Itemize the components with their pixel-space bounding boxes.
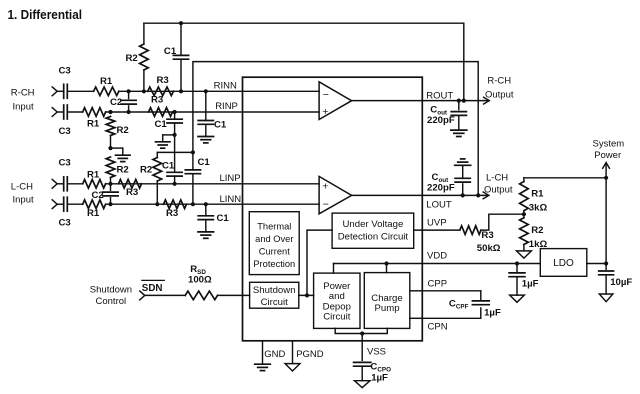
ground GND (262, 341, 264, 364)
capacitor C1 (R-CH feedback) (180, 23, 182, 55)
node RINN-C1fb (179, 89, 183, 93)
wire shutdown (145, 294, 185, 296)
capacitor C1 (L-CH feedback) (192, 152, 194, 170)
wire (67, 183, 82, 185)
resistor R1 (RINN) (94, 87, 119, 96)
node ROUT-Cout (457, 99, 461, 103)
wire VDD internal (334, 263, 423, 265)
svg-text:−: − (323, 89, 329, 101)
svg-text:220pF: 220pF (427, 183, 455, 194)
svg-text:C3: C3 (59, 218, 71, 229)
svg-text:Input: Input (13, 195, 34, 206)
svg-text:R1: R1 (87, 119, 100, 130)
resistor R3 (RINN) (148, 87, 174, 96)
svg-text:Under Voltage: Under Voltage (342, 219, 403, 230)
wire (57, 203, 63, 205)
resistor R1 (LINN) (83, 200, 106, 209)
capacitor Cout (R-CH) 220pF (458, 101, 460, 110)
svg-text:R2: R2 (531, 225, 543, 236)
input connector shutdown (140, 291, 145, 300)
block LDO (540, 249, 587, 277)
svg-text:L-CH: L-CH (486, 173, 508, 184)
wire (106, 203, 320, 205)
node RINN-R2fb (142, 89, 146, 93)
wire (106, 111, 320, 113)
capacitor C1 (LINN to ground) (205, 204, 207, 216)
feedback mid wire (157, 151, 193, 153)
svg-text:Detection Circuit: Detection Circuit (338, 231, 409, 242)
capacitor C3 (LINP) (63, 177, 65, 191)
capacitor C1 (RINP to bias node) (174, 112, 176, 119)
system power arrow (603, 163, 610, 169)
svg-text:LINP: LINP (220, 173, 241, 184)
svg-text:10µF: 10µF (610, 277, 632, 288)
input connector R-CH RINP (52, 108, 57, 117)
IC boundary box (243, 77, 423, 341)
svg-text:Shutdown: Shutdown (253, 285, 296, 296)
svg-text:C1: C1 (162, 161, 175, 172)
svg-text:Input: Input (13, 101, 34, 112)
svg-text:SDN: SDN (142, 283, 163, 294)
node power-10uF (604, 261, 608, 265)
resistor R3 (RINP) (149, 108, 173, 117)
svg-text:and Over: and Over (255, 234, 293, 244)
node RINP-R2chain (108, 110, 112, 114)
wire VSS (361, 334, 363, 361)
node LINP-R2chain (108, 182, 112, 186)
node RINN-C1gnd (204, 89, 208, 93)
svg-text:GND: GND (264, 349, 285, 360)
wire CPN (410, 317, 423, 319)
svg-text:LOUT: LOUT (426, 199, 452, 210)
svg-text:Thermal: Thermal (257, 222, 291, 232)
block Thermal and Over Current Protection (249, 212, 299, 275)
svg-text:R2: R2 (126, 53, 138, 64)
bias node C1 chain (173, 133, 177, 137)
op-amp A2 (L-CH) (319, 176, 352, 213)
svg-text:R1: R1 (87, 170, 100, 181)
wire stub to power depop (333, 264, 335, 274)
svg-text:Power: Power (594, 150, 621, 161)
input connector L-CH LINN (52, 200, 57, 209)
svg-text:R3: R3 (481, 230, 493, 241)
capacitor C3 (RINN) (63, 84, 65, 98)
wire (67, 111, 82, 113)
svg-text:1. Differential: 1. Differential (8, 7, 83, 22)
node RINN-C2 (127, 89, 131, 93)
resistor R3 (LINN) (164, 200, 187, 209)
capacitor Cout (L-CH) 220pF (462, 184, 464, 196)
svg-text:−: − (323, 199, 329, 211)
wire LOUT (422, 194, 483, 196)
svg-text:50kΩ: 50kΩ (477, 243, 501, 254)
wire (57, 111, 63, 113)
svg-text:Current: Current (259, 247, 290, 257)
feedback wire 2 (LOUT to LINN) (193, 62, 478, 196)
svg-text:CCPF: CCPF (449, 299, 469, 311)
svg-text:R3: R3 (126, 187, 138, 198)
capacitor 1uF (VDD) (516, 264, 518, 272)
svg-text:VDD: VDD (427, 250, 447, 261)
svg-text:100Ω: 100Ω (188, 274, 212, 285)
svg-text:R3: R3 (151, 95, 163, 106)
svg-text:RINP: RINP (215, 101, 238, 112)
svg-text:Circuit: Circuit (261, 297, 289, 308)
resistor R2 (RINP to bias node) (106, 117, 115, 136)
svg-text:Output: Output (485, 89, 514, 100)
svg-text:1µF: 1µF (484, 308, 501, 319)
wire ROUT (422, 100, 483, 102)
ground (R2 1k) (516, 251, 531, 258)
wire (57, 90, 63, 92)
node LINP-C1chain (173, 182, 177, 186)
resistor R1 (LINP) (83, 180, 106, 189)
ground (R2 bias node) (111, 147, 123, 149)
svg-text:PGND: PGND (296, 349, 324, 360)
capacitor C2 (R-CH) (128, 91, 130, 98)
wire to shutdown circuit (218, 294, 250, 296)
svg-text:C1: C1 (217, 213, 230, 224)
svg-text:C1: C1 (214, 120, 227, 131)
capacitor CCPF 1uF (472, 300, 489, 302)
block Under Voltage Detection Circuit (332, 213, 414, 248)
svg-text:R1: R1 (100, 76, 113, 87)
svg-text:Output: Output (484, 185, 513, 196)
node top wire C1 (179, 21, 183, 25)
svg-text:C2: C2 (92, 190, 104, 201)
svg-text:Charge: Charge (371, 293, 402, 304)
node mid wire (191, 150, 195, 154)
resistor R2 1k (523, 214, 525, 218)
node VSS (360, 331, 364, 335)
svg-text:CPN: CPN (428, 322, 448, 333)
capacitor C1 (RINN to ground) (205, 91, 207, 120)
node LINN-C2 (108, 202, 112, 206)
block Shutdown Circuit (250, 282, 299, 308)
svg-text:R2: R2 (140, 165, 152, 176)
svg-text:R1: R1 (87, 208, 100, 219)
svg-text:UVP: UVP (427, 217, 447, 228)
node LINN-R2fb (155, 202, 159, 206)
wire op-amp1 output (352, 100, 423, 102)
ground (C1 bias node) (163, 134, 175, 136)
svg-text:C3: C3 (59, 126, 71, 137)
svg-text:R1: R1 (531, 189, 544, 200)
wire op-amp2 output (352, 194, 423, 196)
svg-text:R-CH: R-CH (11, 87, 35, 98)
block Charge Pump (364, 273, 410, 329)
svg-text:C1: C1 (164, 46, 177, 57)
node power-R1wire (604, 176, 608, 180)
resistor RSD 100ohm (185, 291, 217, 300)
capacitor 10uF (605, 264, 607, 270)
capacitor C3 (RINP) (63, 105, 65, 119)
node LINN-C1fb (191, 202, 195, 206)
wire UVP out (414, 229, 460, 231)
wire UVDC to shutdown node (307, 230, 332, 295)
wire (67, 203, 82, 205)
wire LDO to power (587, 263, 606, 265)
ground PGND (292, 341, 294, 364)
node LOUT-feedback (476, 193, 480, 197)
wire power depop bottom (335, 328, 387, 333)
node R1-R2 (522, 212, 526, 216)
svg-text:+: + (322, 106, 328, 118)
resistor R2 (L-CH feedback) (153, 158, 162, 182)
feedback wire top (ROUT to RINN) (144, 23, 464, 100)
svg-text:1µF: 1µF (522, 278, 539, 289)
block Power and Depop Circuit (314, 273, 360, 328)
svg-text:R2: R2 (117, 165, 129, 176)
svg-text:ROUT: ROUT (426, 91, 453, 102)
input connector R-CH RINN (52, 87, 57, 96)
svg-text:C2: C2 (110, 97, 122, 108)
wire (119, 90, 319, 92)
capacitor C2 (L-CH) (110, 184, 112, 191)
svg-text:C3: C3 (59, 66, 71, 77)
svg-text:R3: R3 (166, 208, 178, 219)
svg-text:+: + (322, 180, 328, 192)
svg-text:LDO: LDO (553, 258, 574, 269)
bias node R2 chain (108, 146, 112, 150)
node LINN-C1gnd (204, 202, 208, 206)
op-amp A1 (R-CH) (319, 82, 352, 120)
node RINP-C2 (127, 110, 131, 114)
resistor R2 (bias node to LINP) (106, 157, 115, 178)
svg-text:RINN: RINN (214, 80, 237, 91)
svg-text:VSS: VSS (367, 347, 386, 358)
svg-text:R3: R3 (157, 75, 169, 86)
svg-text:220pF: 220pF (427, 115, 455, 126)
capacitor CCPO 1uF (354, 361, 371, 363)
resistor R3 50k (460, 226, 481, 235)
svg-text:Pump: Pump (374, 303, 399, 314)
node VDD-chargepump (384, 261, 388, 265)
resistor R1 (RINP) (83, 108, 106, 117)
svg-text:3kΩ: 3kΩ (529, 202, 548, 213)
capacitor C1 (bias node to LINP) (174, 135, 176, 172)
wire (106, 183, 320, 185)
svg-text:C1: C1 (198, 157, 211, 168)
svg-text:R-CH: R-CH (487, 76, 511, 87)
svg-text:C3: C3 (59, 158, 71, 169)
wire to R1 (524, 177, 606, 179)
svg-text:System: System (593, 139, 625, 150)
wire (67, 90, 93, 92)
svg-text:1µF: 1µF (371, 372, 388, 383)
svg-text:Protection: Protection (253, 259, 295, 269)
wire shutdown to power depop (299, 294, 314, 296)
svg-text:Shutdown: Shutdown (90, 285, 132, 296)
node ROUT-feedback (462, 99, 466, 103)
svg-text:LINN: LINN (220, 194, 242, 205)
wire UVP to R1R2 node (481, 214, 524, 230)
resistor R1 3k (523, 178, 525, 182)
input connector L-CH LINP (52, 179, 57, 188)
node LOUT-Cout (461, 193, 465, 197)
svg-text:Control: Control (96, 296, 127, 307)
wire CPP (410, 290, 423, 292)
resistor R2 (R-CH feedback) (143, 23, 145, 44)
resistor R3 (LINP) (119, 180, 142, 189)
capacitor C3 (LINN) (63, 197, 65, 211)
wire stub to charge pump (386, 264, 388, 273)
wire (57, 183, 63, 185)
svg-text:CPP: CPP (428, 279, 448, 290)
svg-text:R2: R2 (117, 125, 129, 136)
svg-text:Circuit: Circuit (323, 312, 351, 323)
svg-text:C1: C1 (155, 119, 168, 130)
wire VDD external (422, 263, 540, 265)
svg-text:L-CH: L-CH (11, 182, 33, 193)
node shutdown-UVDC (305, 293, 309, 297)
node RINP-C1chain (173, 110, 177, 114)
node VDD-cap (515, 261, 519, 265)
